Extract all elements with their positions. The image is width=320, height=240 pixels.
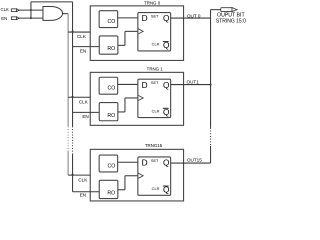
junction on EN wire [30, 17, 32, 19]
RO box TRNG1 [99, 103, 118, 121]
flip-flop TRNG0 [138, 13, 171, 51]
svg-text:EN: EN [80, 48, 86, 53]
wire EN bus vertical upper [72, 2, 74, 127]
wire CLK into TRNG15 [68, 174, 90, 176]
block TRNG 0 [90, 6, 183, 61]
wire EN bus vertical lower [72, 154, 74, 191]
AND gate U1 [43, 6, 63, 20]
wire Q output to bus TRNG15 [171, 162, 211, 164]
wire bus to output port [211, 9, 221, 11]
wire RO riser TRNG0 [124, 31, 126, 45]
wire EN port to AND gate [19, 17, 43, 19]
wire CLK into TRNG1 [68, 96, 90, 98]
wire output bus vertical upper [210, 10, 212, 128]
wire gated clock bus dotted continuation [67, 126, 69, 150]
svg-text:OUT1: OUT1 [187, 80, 200, 85]
flip-flop TRNG15 [138, 157, 171, 195]
svg-text:CO: CO [108, 19, 116, 25]
wire AND output [63, 13, 69, 15]
wire RO riser TRNG15 [124, 176, 126, 190]
svg-text:CLK: CLK [78, 178, 88, 183]
svg-text:CLR: CLR [152, 42, 160, 47]
svg-text:CLK: CLK [77, 34, 87, 39]
wire Q output to bus TRNG1 [171, 84, 211, 86]
wire CLK port to AND gate [19, 9, 43, 11]
svg-text:RO: RO [107, 46, 115, 52]
CO box TRNG15 [99, 155, 118, 172]
flip-flop clock triangle TRNG0 [138, 29, 143, 35]
block TRNG 1 [90, 72, 183, 125]
svg-text:STRING 15:0: STRING 15:0 [216, 19, 246, 25]
wire gated clock bus vertical upper [67, 14, 69, 127]
wire CO to flip-flop D TRNG15 [118, 161, 138, 163]
wire RO output TRNG15 [118, 189, 125, 191]
CO box TRNG1 [99, 77, 118, 94]
svg-text:D: D [142, 80, 148, 90]
input port CLK [11, 9, 17, 12]
svg-text:CLK: CLK [79, 100, 89, 105]
RO box TRNG0 [99, 36, 118, 54]
CO box TRNG0 [99, 11, 118, 28]
wire RO riser TRNG1 [124, 98, 126, 112]
wire EN bus dotted continuation [72, 126, 74, 154]
svg-text:EN: EN [80, 193, 86, 198]
junction EN bus crossing TRNG1 [71, 96, 73, 98]
svg-text:OUT15: OUT15 [187, 158, 202, 163]
wire output bus dotted continuation [210, 128, 212, 146]
svg-text:D: D [142, 158, 148, 168]
wire RO output TRNG0 [118, 44, 125, 46]
flip-flop TRNG1 [138, 79, 171, 117]
input port EN [11, 17, 17, 20]
svg-text:Q: Q [163, 80, 170, 90]
svg-text:OUPUT BIT: OUPUT BIT [217, 12, 245, 18]
wire gated clock bus vertical lower [67, 151, 69, 176]
wire EN into TRNG15 [73, 191, 100, 193]
svg-text:CLK: CLK [1, 7, 9, 12]
svg-text:TRNG 0: TRNG 0 [144, 0, 161, 5]
wire CO to flip-flop D TRNG1 [118, 83, 138, 85]
wire output bus vertical lower [210, 146, 212, 163]
svg-text:D: D [142, 13, 148, 23]
svg-text:SET: SET [151, 80, 159, 85]
svg-text:SET: SET [151, 158, 159, 163]
svg-text:RO: RO [107, 113, 115, 119]
flip-flop clock triangle TRNG1 [138, 95, 143, 101]
junction output bus TRNG1 [209, 83, 211, 85]
wire CO to flip-flop D TRNG0 [118, 17, 138, 19]
svg-text:TRNG15: TRNG15 [145, 143, 163, 148]
wire EN into TRNG1 [73, 111, 100, 113]
svg-text:OUT 0: OUT 0 [187, 13, 201, 18]
junction EN bus crossing TRNG15 [71, 174, 73, 176]
RO box TRNG15 [99, 180, 118, 198]
junction EN bus crossing TRNG0 [71, 31, 73, 33]
junction crossing CLK wire [30, 9, 32, 11]
svg-text:CLR: CLR [152, 108, 160, 113]
wire EN into TRNG0 [73, 46, 100, 48]
wire Q output to bus TRNG0 [171, 17, 211, 19]
svg-text:Q: Q [163, 158, 170, 168]
output port symbol [221, 8, 233, 12]
wire to flip-flop clock TRNG15 [125, 175, 138, 177]
svg-text:TRNG 1: TRNG 1 [147, 67, 164, 72]
svg-text:CO: CO [108, 86, 116, 92]
svg-text:EN: EN [82, 114, 88, 119]
wire to flip-flop clock TRNG0 [125, 30, 138, 32]
svg-text:EN: EN [1, 16, 7, 21]
wire CLK into TRNG0 [68, 31, 90, 33]
block TRNG15 [90, 149, 183, 201]
svg-text:CLR: CLR [152, 186, 160, 191]
wire EN branch vertical [30, 2, 32, 18]
flip-flop clock triangle TRNG15 [138, 173, 143, 179]
svg-text:Q: Q [163, 13, 170, 23]
svg-text:SET: SET [151, 14, 159, 19]
wire to flip-flop clock TRNG1 [125, 97, 138, 99]
wire EN bypass top [31, 1, 73, 3]
svg-text:CO: CO [108, 163, 116, 169]
wire RO output TRNG1 [118, 111, 125, 113]
svg-text:RO: RO [107, 191, 115, 197]
